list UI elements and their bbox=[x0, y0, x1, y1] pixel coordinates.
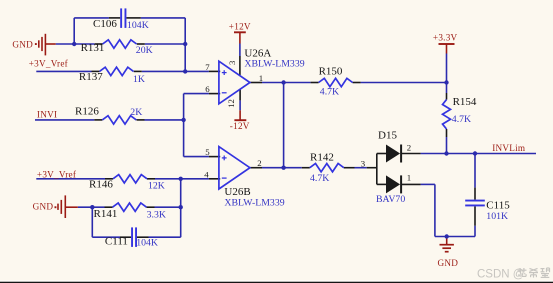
svg-text:R131: R131 bbox=[81, 42, 105, 54]
svg-text:3: 3 bbox=[227, 60, 237, 65]
svg-text:+3.3V: +3.3V bbox=[433, 32, 458, 42]
svg-text:R146: R146 bbox=[89, 179, 113, 191]
svg-text:R141: R141 bbox=[94, 208, 118, 220]
svg-text:4: 4 bbox=[204, 169, 209, 179]
svg-text:INVLim: INVLim bbox=[492, 143, 525, 153]
svg-text:+3V_Vref: +3V_Vref bbox=[29, 59, 69, 69]
svg-text:4.7K: 4.7K bbox=[310, 173, 329, 184]
svg-text:104K: 104K bbox=[136, 237, 158, 248]
svg-text:C106: C106 bbox=[93, 18, 117, 30]
svg-text:20K: 20K bbox=[136, 45, 153, 56]
svg-text:4.7K: 4.7K bbox=[320, 86, 339, 97]
svg-text:3: 3 bbox=[361, 158, 366, 168]
svg-text:R126: R126 bbox=[75, 105, 99, 117]
svg-text:7: 7 bbox=[205, 62, 210, 72]
svg-text:2K: 2K bbox=[130, 107, 142, 118]
svg-text:1K: 1K bbox=[133, 74, 145, 85]
svg-text:6: 6 bbox=[205, 84, 210, 94]
svg-text:CSDN @: CSDN @ bbox=[477, 269, 524, 281]
svg-text:1: 1 bbox=[259, 73, 263, 83]
svg-text:2: 2 bbox=[257, 158, 261, 168]
svg-text:R154: R154 bbox=[453, 96, 477, 108]
svg-text:1: 1 bbox=[407, 172, 411, 182]
svg-text:C111: C111 bbox=[105, 236, 128, 248]
svg-text:XBLW-LM339: XBLW-LM339 bbox=[244, 58, 304, 69]
svg-text:2: 2 bbox=[407, 142, 411, 152]
svg-text:R150: R150 bbox=[319, 66, 343, 78]
svg-text:BAV70: BAV70 bbox=[376, 194, 405, 205]
svg-text:GND: GND bbox=[438, 258, 459, 268]
svg-text:R137: R137 bbox=[79, 71, 103, 83]
svg-text:+3V_Vref: +3V_Vref bbox=[37, 169, 77, 179]
svg-text:C115: C115 bbox=[486, 200, 510, 212]
svg-text:INVI: INVI bbox=[37, 110, 57, 120]
svg-text:101K: 101K bbox=[486, 211, 508, 222]
svg-text:XBLW-LM339: XBLW-LM339 bbox=[224, 198, 284, 209]
svg-text:R142: R142 bbox=[310, 152, 334, 164]
svg-text:3.3K: 3.3K bbox=[147, 209, 166, 220]
svg-text:+12V: +12V bbox=[229, 21, 251, 31]
svg-text:5: 5 bbox=[205, 147, 210, 157]
svg-text:104K: 104K bbox=[127, 20, 149, 31]
svg-text:12K: 12K bbox=[148, 181, 165, 192]
svg-text:12: 12 bbox=[226, 99, 236, 108]
svg-text:U26B: U26B bbox=[224, 186, 250, 198]
svg-text:D15: D15 bbox=[378, 129, 397, 141]
svg-text:4.7K: 4.7K bbox=[452, 114, 471, 125]
svg-text:GND: GND bbox=[33, 202, 54, 212]
svg-text:-12V: -12V bbox=[230, 121, 250, 131]
svg-text:GND: GND bbox=[12, 39, 33, 49]
